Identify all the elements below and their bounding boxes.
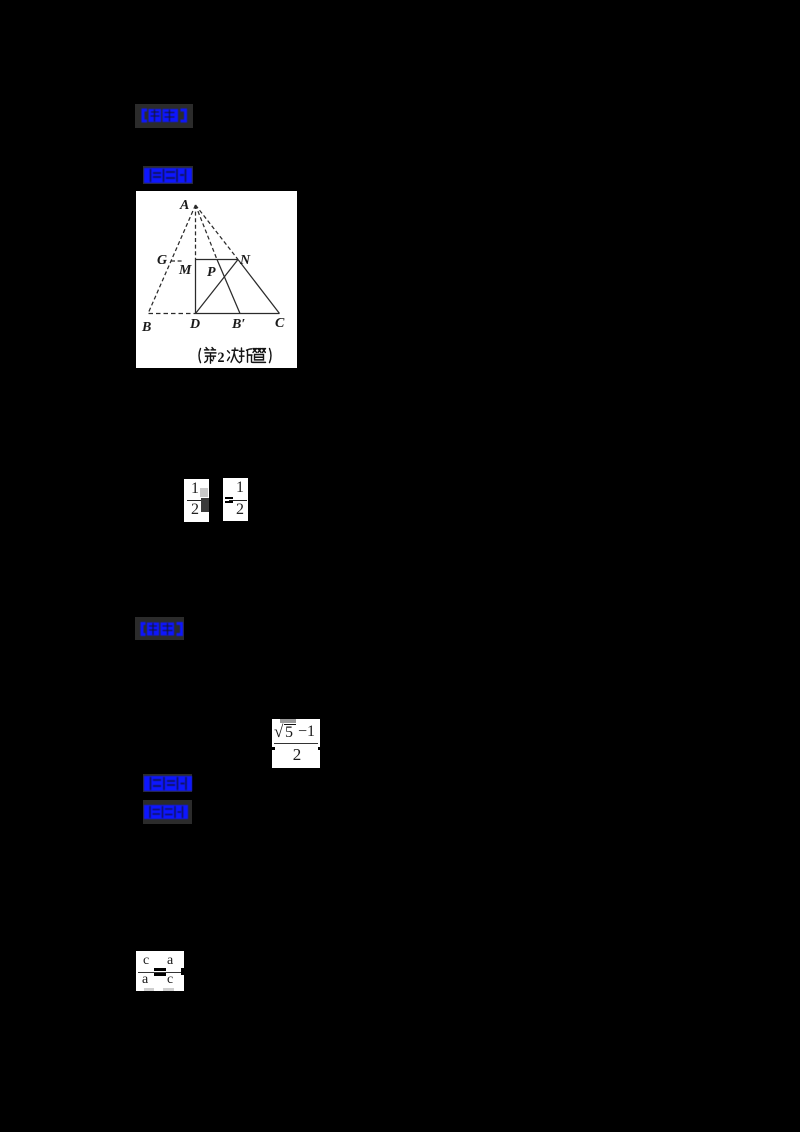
wire solid N-C — [238, 260, 280, 314]
bracket right — [181, 109, 188, 123]
minus one — [298, 723, 315, 741]
wire dashed side A-B — [149, 205, 196, 313]
dark glyph gaps — [151, 169, 186, 182]
label L1 gray highlight — [135, 104, 193, 128]
wire dashed fold A-M — [195, 205, 197, 260]
radicand 5 — [285, 724, 293, 742]
label L4 blue block — [144, 776, 192, 796]
radical sqrt5 — [274, 722, 283, 742]
figure image white box — [136, 191, 297, 368]
label L2 gray highlight — [143, 166, 193, 184]
svg-text:B: B — [141, 320, 151, 335]
denominator 2 — [290, 745, 304, 765]
radical overline — [284, 724, 296, 726]
ghost bottom left — [144, 988, 154, 991]
svg-text:B′: B′ — [231, 317, 245, 332]
wire solid M-D — [195, 260, 197, 314]
a over c right — [167, 953, 173, 969]
label L1 blue text — [140, 108, 188, 128]
svg-text:A: A — [179, 198, 189, 213]
blue highlight block — [144, 168, 192, 183]
wire dashed A-N — [196, 205, 239, 260]
bracket right — [177, 622, 184, 636]
char 2 block — [163, 109, 179, 122]
ghost mark light — [200, 488, 208, 497]
label L5 blue block — [144, 805, 188, 824]
blue highlight block — [144, 805, 188, 819]
dot left — [272, 747, 275, 751]
long bar — [138, 972, 182, 973]
label L3 gray highlight — [135, 617, 184, 640]
equation box 1/2 (first) — [184, 479, 209, 522]
svg-text:N: N — [239, 253, 251, 268]
svg-text:D: D — [189, 317, 200, 332]
numerator 1 — [233, 479, 247, 497]
wire solid D-N — [196, 260, 239, 314]
svg-text:2: 2 — [218, 350, 225, 367]
char 2 block — [161, 623, 175, 636]
label L4 gray highlight — [143, 774, 192, 792]
equation box (sqrt5-1)/2 — [272, 719, 320, 768]
label L3 blue text — [139, 621, 185, 642]
blue highlight block — [144, 776, 192, 791]
label L5 gray highlight — [143, 800, 192, 824]
svg-text:C: C — [275, 316, 285, 331]
fraction bar — [274, 743, 318, 744]
svg-text:G: G — [157, 253, 167, 268]
ghost bottom right — [163, 988, 174, 991]
caption glyph ci4 — [228, 348, 239, 362]
caption glyph di4 — [205, 348, 217, 364]
bracket left — [142, 109, 148, 123]
fraction bar — [187, 500, 202, 501]
label L2 blue block — [144, 168, 192, 188]
char 1 block — [149, 109, 162, 122]
caption digit 2 — [218, 350, 225, 367]
equals sign — [225, 497, 233, 499]
denominator 2 — [233, 501, 247, 519]
svg-text:M: M — [178, 263, 192, 278]
ghost mark dark — [201, 498, 209, 512]
caption glyph die2 — [253, 349, 266, 363]
dot right — [318, 747, 321, 751]
wire solid P-B' — [217, 260, 240, 314]
equation box =1/2 (second) — [223, 478, 248, 521]
wire dashed B-D — [149, 313, 196, 315]
equation box c/a = a/c — [136, 951, 184, 991]
numerator 1 — [187, 480, 203, 498]
dark glyph gaps — [151, 777, 187, 790]
bracket left — [141, 622, 146, 636]
dark glyph gaps — [150, 806, 183, 818]
comma mark right edge — [181, 968, 184, 975]
caption paren left — [199, 349, 201, 363]
wire dashed A-P — [196, 205, 218, 260]
caption paren right — [270, 349, 272, 363]
c over a left — [143, 953, 149, 969]
ghost strip top — [280, 719, 296, 723]
denominator 2 — [187, 501, 203, 519]
bold equals — [154, 968, 166, 971]
fraction bar — [229, 500, 247, 501]
svg-text:P: P — [207, 265, 216, 280]
wire dashed G-M — [171, 260, 184, 262]
char 1 block — [147, 623, 159, 636]
wire solid D-C — [196, 313, 280, 315]
wire solid M-N — [196, 259, 239, 261]
caption glyph zhe2 — [240, 348, 253, 363]
